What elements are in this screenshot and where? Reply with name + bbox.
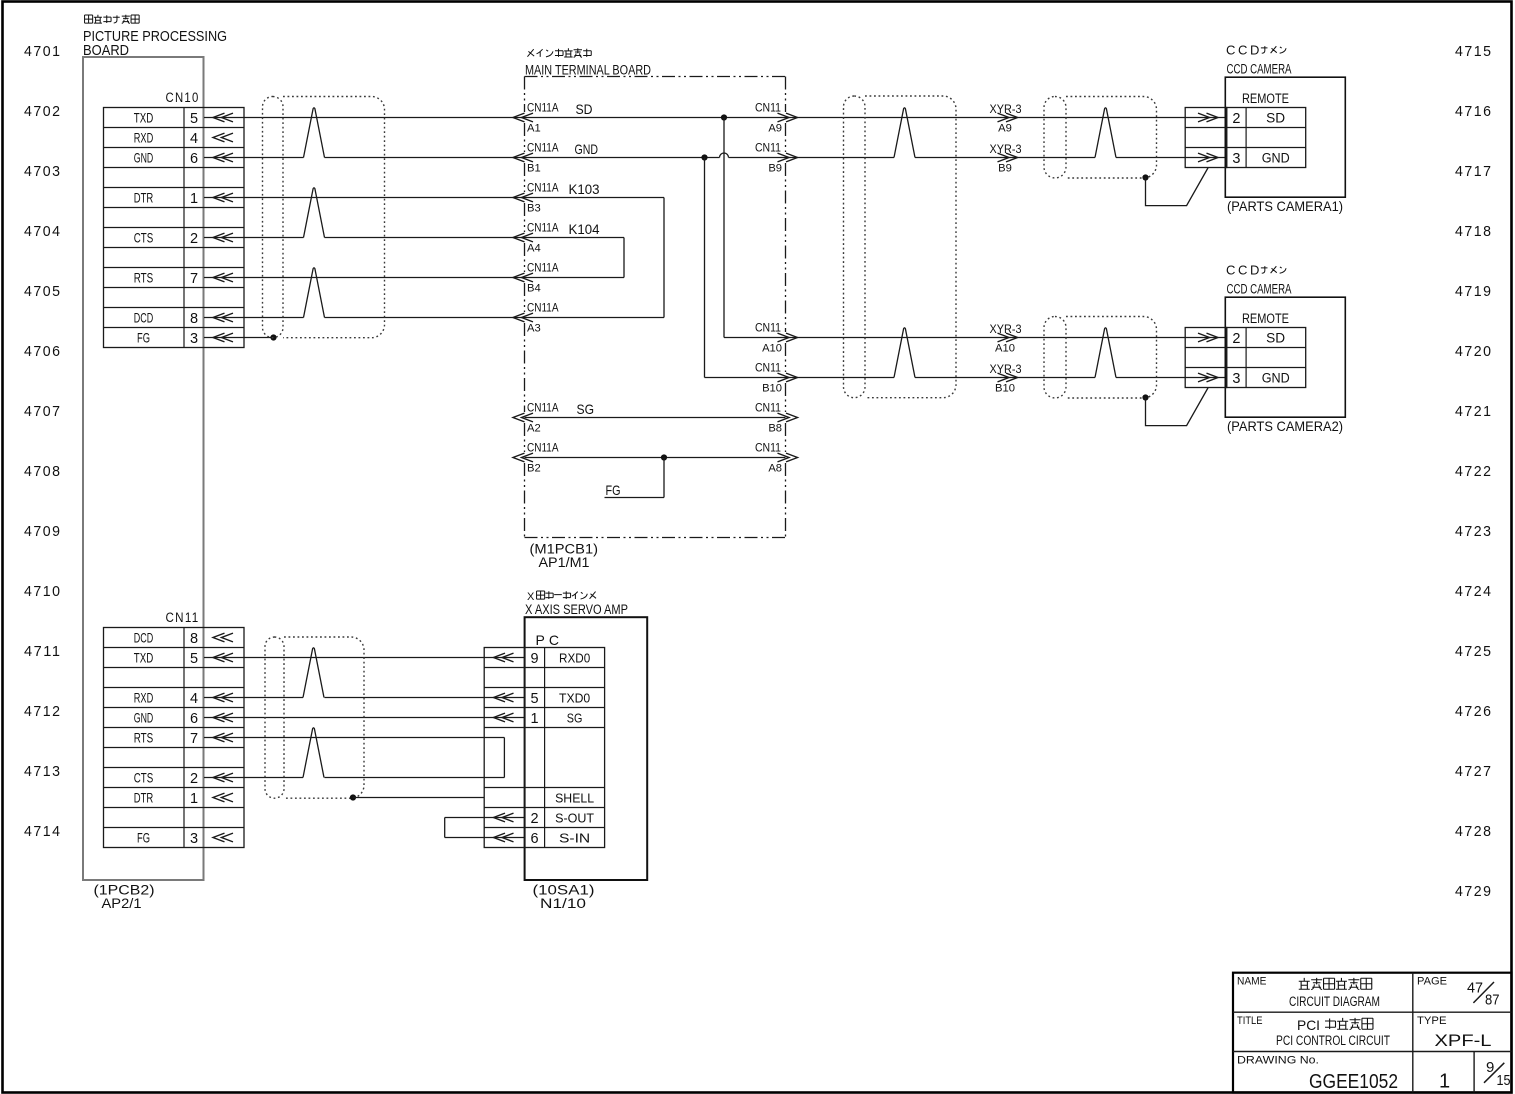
- pin CN11A-B4: [513, 261, 559, 295]
- svg-text:6: 6: [531, 831, 539, 847]
- svg-text:2: 2: [190, 771, 198, 787]
- shielded cable W1: [263, 97, 284, 338]
- svg-text:AP1/M1: AP1/M1: [539, 555, 590, 570]
- svg-text:K104: K104: [569, 221, 600, 237]
- svg-text:B10: B10: [995, 383, 1015, 395]
- svg-text:CCD CAMERA: CCD CAMERA: [1227, 282, 1292, 297]
- wire B10 to camera2 GND: [786, 377, 895, 379]
- svg-text:A9: A9: [998, 123, 1012, 135]
- cable XYR-3 marker B9: [990, 142, 1022, 175]
- svg-text:1: 1: [531, 711, 539, 727]
- pin CN11A-B2: [513, 441, 559, 475]
- pin CN11-A8: [755, 441, 798, 475]
- svg-text:47: 47: [1467, 980, 1483, 997]
- wire shield to SHELL: [353, 797, 484, 799]
- cable XYR-3 marker A10: [990, 322, 1022, 355]
- svg-text:4702: 4702: [24, 103, 62, 120]
- right margin line numbers 4715-4729: [1455, 43, 1493, 900]
- svg-text:CCD: CCD: [1226, 43, 1262, 58]
- pin CN11A-B1: [513, 141, 559, 175]
- svg-text:PCI: PCI: [1297, 1017, 1320, 1033]
- svg-text:SG: SG: [577, 401, 595, 417]
- svg-text:GND: GND: [575, 141, 599, 157]
- svg-text:BOARD: BOARD: [83, 42, 129, 59]
- svg-text:B8: B8: [768, 423, 782, 435]
- svg-text:AP2/1: AP2/1: [102, 896, 142, 911]
- pin CN11-B8: [755, 401, 798, 435]
- twisted pair RTS/CTS bottom: [303, 728, 324, 778]
- svg-text:(PARTS CAMERA2): (PARTS CAMERA2): [1227, 418, 1343, 434]
- twisted pair TXD/RXD bottom: [303, 648, 324, 698]
- wire DTR1 to CN11A-B3 (K103): [204, 197, 525, 199]
- wire S-OUT jumper: [445, 817, 525, 819]
- svg-text:MAIN TERMINAL BOARD: MAIN TERMINAL BOARD: [525, 63, 651, 78]
- label main terminal board: [525, 48, 651, 77]
- svg-text:4723: 4723: [1455, 523, 1493, 540]
- svg-text:X AXIS SERVO AMP: X AXIS SERVO AMP: [525, 602, 628, 617]
- twisted pair camera2: [1095, 328, 1116, 378]
- svg-text:XPF-L: XPF-L: [1435, 1031, 1492, 1050]
- svg-text:B4: B4: [527, 283, 541, 295]
- twisted pair DTR/CTS: [304, 188, 325, 238]
- svg-text:9: 9: [531, 651, 539, 667]
- twisted pair A9/B9: [894, 108, 915, 158]
- svg-text:4717: 4717: [1455, 163, 1493, 180]
- camera U4 CCD CAMERA2: [1185, 263, 1345, 435]
- connector CN11 on picture processing board: [104, 610, 245, 848]
- junction FG-shield: [270, 334, 276, 340]
- svg-text:4728: 4728: [1455, 823, 1493, 840]
- svg-text:4: 4: [190, 691, 198, 707]
- pin CN11-A9: [755, 101, 798, 135]
- svg-text:4718: 4718: [1455, 223, 1493, 240]
- svg-text:4715: 4715: [1455, 43, 1493, 60]
- wire TXD5 to CN11A-A1 (SD): [204, 117, 525, 119]
- svg-text:S-IN: S-IN: [559, 831, 590, 846]
- svg-text:PAGE: PAGE: [1417, 976, 1447, 988]
- svg-text:A10: A10: [995, 343, 1015, 355]
- svg-text:CN11A: CN11A: [527, 261, 559, 275]
- svg-text:4703: 4703: [24, 163, 62, 180]
- pin CN11A-A3: [513, 301, 559, 335]
- svg-text:TITLE: TITLE: [1237, 1015, 1263, 1027]
- svg-text:SD: SD: [1266, 331, 1285, 346]
- pin CN11A-A4: [513, 221, 559, 255]
- wire B2 to A8: [525, 457, 786, 459]
- svg-text:4711: 4711: [24, 643, 62, 660]
- junction SD branch: [721, 114, 727, 120]
- title block: [1233, 973, 1512, 1093]
- wire GND6 to CN11A-B1 (GND): [204, 157, 304, 159]
- left margin line numbers 4701-4714: [24, 43, 62, 840]
- svg-text:4701: 4701: [24, 43, 62, 60]
- svg-text:5: 5: [190, 651, 198, 667]
- svg-text:XYR-3: XYR-3: [990, 142, 1022, 156]
- camera U3 CCD CAMERA1: [1185, 43, 1345, 215]
- svg-text:TXD: TXD: [134, 110, 154, 126]
- board U5 X AXIS SERVO AMP outline: [525, 617, 648, 880]
- svg-text:4: 4: [190, 131, 198, 147]
- svg-text:DCD: DCD: [134, 310, 154, 326]
- svg-text:CN11A: CN11A: [527, 301, 559, 315]
- svg-text:87: 87: [1485, 992, 1500, 1009]
- svg-text:NAME: NAME: [1237, 976, 1267, 988]
- svg-text:CN11: CN11: [755, 321, 781, 335]
- svg-text:15: 15: [1497, 1072, 1511, 1089]
- svg-text:1: 1: [1439, 1071, 1450, 1093]
- svg-text:A2: A2: [527, 423, 541, 435]
- label (1PCB2) AP2/1: [94, 883, 155, 912]
- shielded cable W2: [844, 96, 866, 398]
- label picture processing board: [83, 15, 227, 59]
- svg-text:5: 5: [190, 111, 198, 127]
- connector CN10 on picture processing board: [104, 90, 245, 348]
- svg-text:GND: GND: [134, 710, 154, 726]
- svg-text:B9: B9: [998, 163, 1012, 175]
- svg-text:CN11: CN11: [755, 361, 781, 375]
- svg-text:4710: 4710: [24, 583, 62, 600]
- wire K104 loop A4 to B4: [525, 237, 625, 239]
- svg-text:4714: 4714: [24, 823, 62, 840]
- pin CN11A-B3: [513, 181, 559, 215]
- svg-text:2: 2: [531, 811, 539, 827]
- svg-text:SD: SD: [1266, 111, 1285, 126]
- svg-text:PC: PC: [536, 632, 563, 648]
- svg-text:S-OUT: S-OUT: [555, 811, 594, 826]
- svg-text:1: 1: [190, 791, 198, 807]
- shield ground camera2: [1142, 394, 1148, 400]
- svg-text:3: 3: [1232, 371, 1240, 387]
- svg-text:6: 6: [190, 151, 198, 167]
- svg-text:4727: 4727: [1455, 763, 1493, 780]
- pin CN11A-A2: [513, 401, 559, 435]
- svg-text:CTS: CTS: [134, 230, 154, 246]
- board U1 PICTURE PROCESSING BOARD outline: [83, 57, 204, 880]
- svg-text:4708: 4708: [24, 463, 62, 480]
- svg-text:N1/10: N1/10: [540, 896, 586, 911]
- svg-text:4721: 4721: [1455, 403, 1493, 420]
- svg-text:DTR: DTR: [134, 190, 154, 206]
- svg-text:2: 2: [190, 231, 198, 247]
- svg-text:DTR: DTR: [134, 790, 154, 806]
- svg-text:A4: A4: [527, 243, 541, 255]
- svg-text:4706: 4706: [24, 343, 62, 360]
- svg-text:REMOTE: REMOTE: [1242, 91, 1289, 106]
- svg-text:DRAWING No.: DRAWING No.: [1237, 1055, 1319, 1067]
- wire CTS2 to CN11A-A4 (K104): [204, 237, 304, 239]
- svg-text:CIRCUIT DIAGRAM: CIRCUIT DIAGRAM: [1289, 994, 1380, 1009]
- wire CTS2 loopback: [204, 777, 303, 779]
- svg-text:FG: FG: [137, 830, 150, 846]
- svg-text:4713: 4713: [24, 763, 62, 780]
- svg-text:CN11A: CN11A: [527, 441, 559, 455]
- svg-text:RXD: RXD: [134, 690, 154, 706]
- wire SD A1 to A9: [525, 117, 786, 119]
- svg-text:TXD: TXD: [134, 650, 154, 666]
- svg-text:4722: 4722: [1455, 463, 1493, 480]
- shielded cable W4 (camera2): [1044, 317, 1066, 399]
- shield ground camera1: [1142, 174, 1148, 180]
- pin CN11A-A1: [513, 101, 559, 135]
- wire FG tap: [663, 458, 665, 498]
- svg-text:SHELL: SHELL: [555, 791, 594, 806]
- svg-text:GND: GND: [134, 150, 154, 166]
- svg-text:GND: GND: [1262, 371, 1290, 386]
- svg-text:3: 3: [190, 831, 198, 847]
- svg-text:4726: 4726: [1455, 703, 1493, 720]
- svg-text:A3: A3: [527, 323, 541, 335]
- label (10SA1) N1/10: [533, 883, 595, 912]
- wire GND branch down to B10: [704, 158, 706, 378]
- svg-text:B3: B3: [527, 203, 541, 215]
- wire A9 to camera1 SD: [786, 117, 1227, 119]
- svg-text:CCD CAMERA: CCD CAMERA: [1227, 62, 1292, 77]
- svg-text:B9: B9: [768, 163, 782, 175]
- svg-text:CTS: CTS: [134, 770, 154, 786]
- junction shield-SHELL: [350, 794, 356, 800]
- svg-text:4705: 4705: [24, 283, 62, 300]
- svg-text:2: 2: [1232, 331, 1240, 347]
- svg-text:B2: B2: [527, 463, 541, 475]
- svg-text:CN11A: CN11A: [527, 141, 559, 155]
- svg-text:CN11: CN11: [755, 101, 781, 115]
- svg-text:8: 8: [190, 631, 198, 647]
- svg-text:CN11A: CN11A: [527, 401, 559, 415]
- wire RXD4 to TXD0: [204, 697, 303, 699]
- wire S-IN jumper: [445, 837, 525, 839]
- shielded cable W5: [265, 637, 284, 798]
- svg-text:7: 7: [190, 271, 198, 287]
- wire RTS7 loopback: [204, 737, 504, 739]
- svg-text:1: 1: [190, 191, 198, 207]
- svg-text:B10: B10: [762, 383, 782, 395]
- svg-text:PCI CONTROL CIRCUIT: PCI CONTROL CIRCUIT: [1276, 1033, 1390, 1048]
- svg-text:4719: 4719: [1455, 283, 1493, 300]
- svg-text:GGEE1052: GGEE1052: [1309, 1071, 1398, 1093]
- svg-text:XYR-3: XYR-3: [990, 322, 1022, 336]
- wire GND6 to SG: [204, 717, 525, 719]
- svg-text:8: 8: [190, 311, 198, 327]
- svg-text:SD: SD: [576, 101, 593, 117]
- twisted pair TXD/GND: [304, 108, 325, 158]
- pin CN11-A10: [755, 321, 798, 355]
- svg-text:RXD: RXD: [134, 130, 154, 146]
- svg-text:4725: 4725: [1455, 643, 1493, 660]
- wire RTS7 to CN11A-B4: [204, 277, 525, 279]
- wire SD branch down to A10: [723, 118, 725, 338]
- svg-text:4724: 4724: [1455, 583, 1493, 600]
- svg-text:4720: 4720: [1455, 343, 1493, 360]
- svg-text:A1: A1: [527, 123, 541, 135]
- twisted pair RTS/DCD: [304, 268, 325, 318]
- pin CN11-B9: [755, 141, 798, 175]
- svg-text:3: 3: [190, 331, 198, 347]
- svg-text:4704: 4704: [24, 223, 62, 240]
- shielded cable W3 (camera1): [1044, 97, 1066, 179]
- junction GND branch: [701, 154, 707, 160]
- svg-text:GND: GND: [1262, 151, 1290, 166]
- svg-text:RXD0: RXD0: [559, 651, 590, 666]
- wire GND B1 to B9 with hop: [525, 157, 720, 159]
- twisted pair camera1: [1095, 108, 1116, 158]
- svg-text:TXD0: TXD0: [559, 691, 590, 706]
- svg-text:6: 6: [190, 711, 198, 727]
- svg-text:CN11A: CN11A: [527, 181, 559, 195]
- svg-text:RTS: RTS: [134, 270, 154, 286]
- wire A10 to camera2 SD: [786, 337, 1227, 339]
- wire K103 loop B3 to A3: [525, 197, 665, 199]
- svg-text:4707: 4707: [24, 403, 62, 420]
- svg-text:FG: FG: [606, 482, 621, 498]
- svg-text:(PARTS CAMERA1): (PARTS CAMERA1): [1227, 198, 1343, 214]
- svg-text:7: 7: [190, 731, 198, 747]
- svg-text:A10: A10: [762, 343, 782, 355]
- twisted pair A10/B10: [894, 328, 915, 378]
- wire B9 to camera1 GND: [786, 157, 895, 159]
- wire SG A2 to B8: [525, 417, 786, 419]
- svg-text:SG: SG: [567, 711, 583, 726]
- wire DCD8 to CN11A-A3: [204, 317, 304, 319]
- svg-text:DCD: DCD: [134, 630, 154, 646]
- cable XYR-3 marker A9: [990, 102, 1022, 135]
- svg-text:CN11: CN11: [166, 610, 200, 625]
- svg-text:CN11A: CN11A: [527, 101, 559, 115]
- svg-text:4729: 4729: [1455, 883, 1493, 900]
- svg-text:A9: A9: [768, 123, 782, 135]
- svg-text:3: 3: [1232, 151, 1240, 167]
- svg-text:CCD: CCD: [1226, 263, 1262, 278]
- svg-text:CN11: CN11: [755, 141, 781, 155]
- board U2 MAIN TERMINAL BOARD outline: [525, 77, 786, 538]
- svg-text:TYPE: TYPE: [1417, 1015, 1447, 1027]
- svg-text:CN11: CN11: [755, 401, 781, 415]
- svg-text:2: 2: [1232, 111, 1240, 127]
- connector PC pin table: [484, 648, 604, 848]
- svg-text:K103: K103: [569, 181, 600, 197]
- label x axis servo amp: [525, 591, 628, 617]
- wire FG3 to cable shield: [204, 337, 274, 339]
- wire TXD5 to RXD0: [204, 657, 525, 659]
- svg-text:B1: B1: [527, 163, 541, 175]
- svg-text:4712: 4712: [24, 703, 62, 720]
- svg-text:4716: 4716: [1455, 103, 1493, 120]
- svg-text:4709: 4709: [24, 523, 62, 540]
- svg-text:CN11A: CN11A: [527, 221, 559, 235]
- svg-text:RTS: RTS: [134, 730, 154, 746]
- svg-text:XYR-3: XYR-3: [990, 102, 1022, 116]
- label (M1PCB1) AP1/M1: [530, 542, 599, 571]
- svg-text:FG: FG: [137, 330, 150, 346]
- svg-text:CN11: CN11: [755, 441, 781, 455]
- pin CN11-B10: [755, 361, 798, 395]
- junction FG tap: [661, 454, 667, 460]
- svg-text:CN10: CN10: [166, 90, 200, 105]
- svg-text:5: 5: [531, 691, 539, 707]
- svg-text:A8: A8: [768, 463, 782, 475]
- svg-text:XYR-3: XYR-3: [990, 362, 1022, 376]
- cable XYR-3 marker B10: [990, 362, 1022, 395]
- svg-text:REMOTE: REMOTE: [1242, 311, 1289, 326]
